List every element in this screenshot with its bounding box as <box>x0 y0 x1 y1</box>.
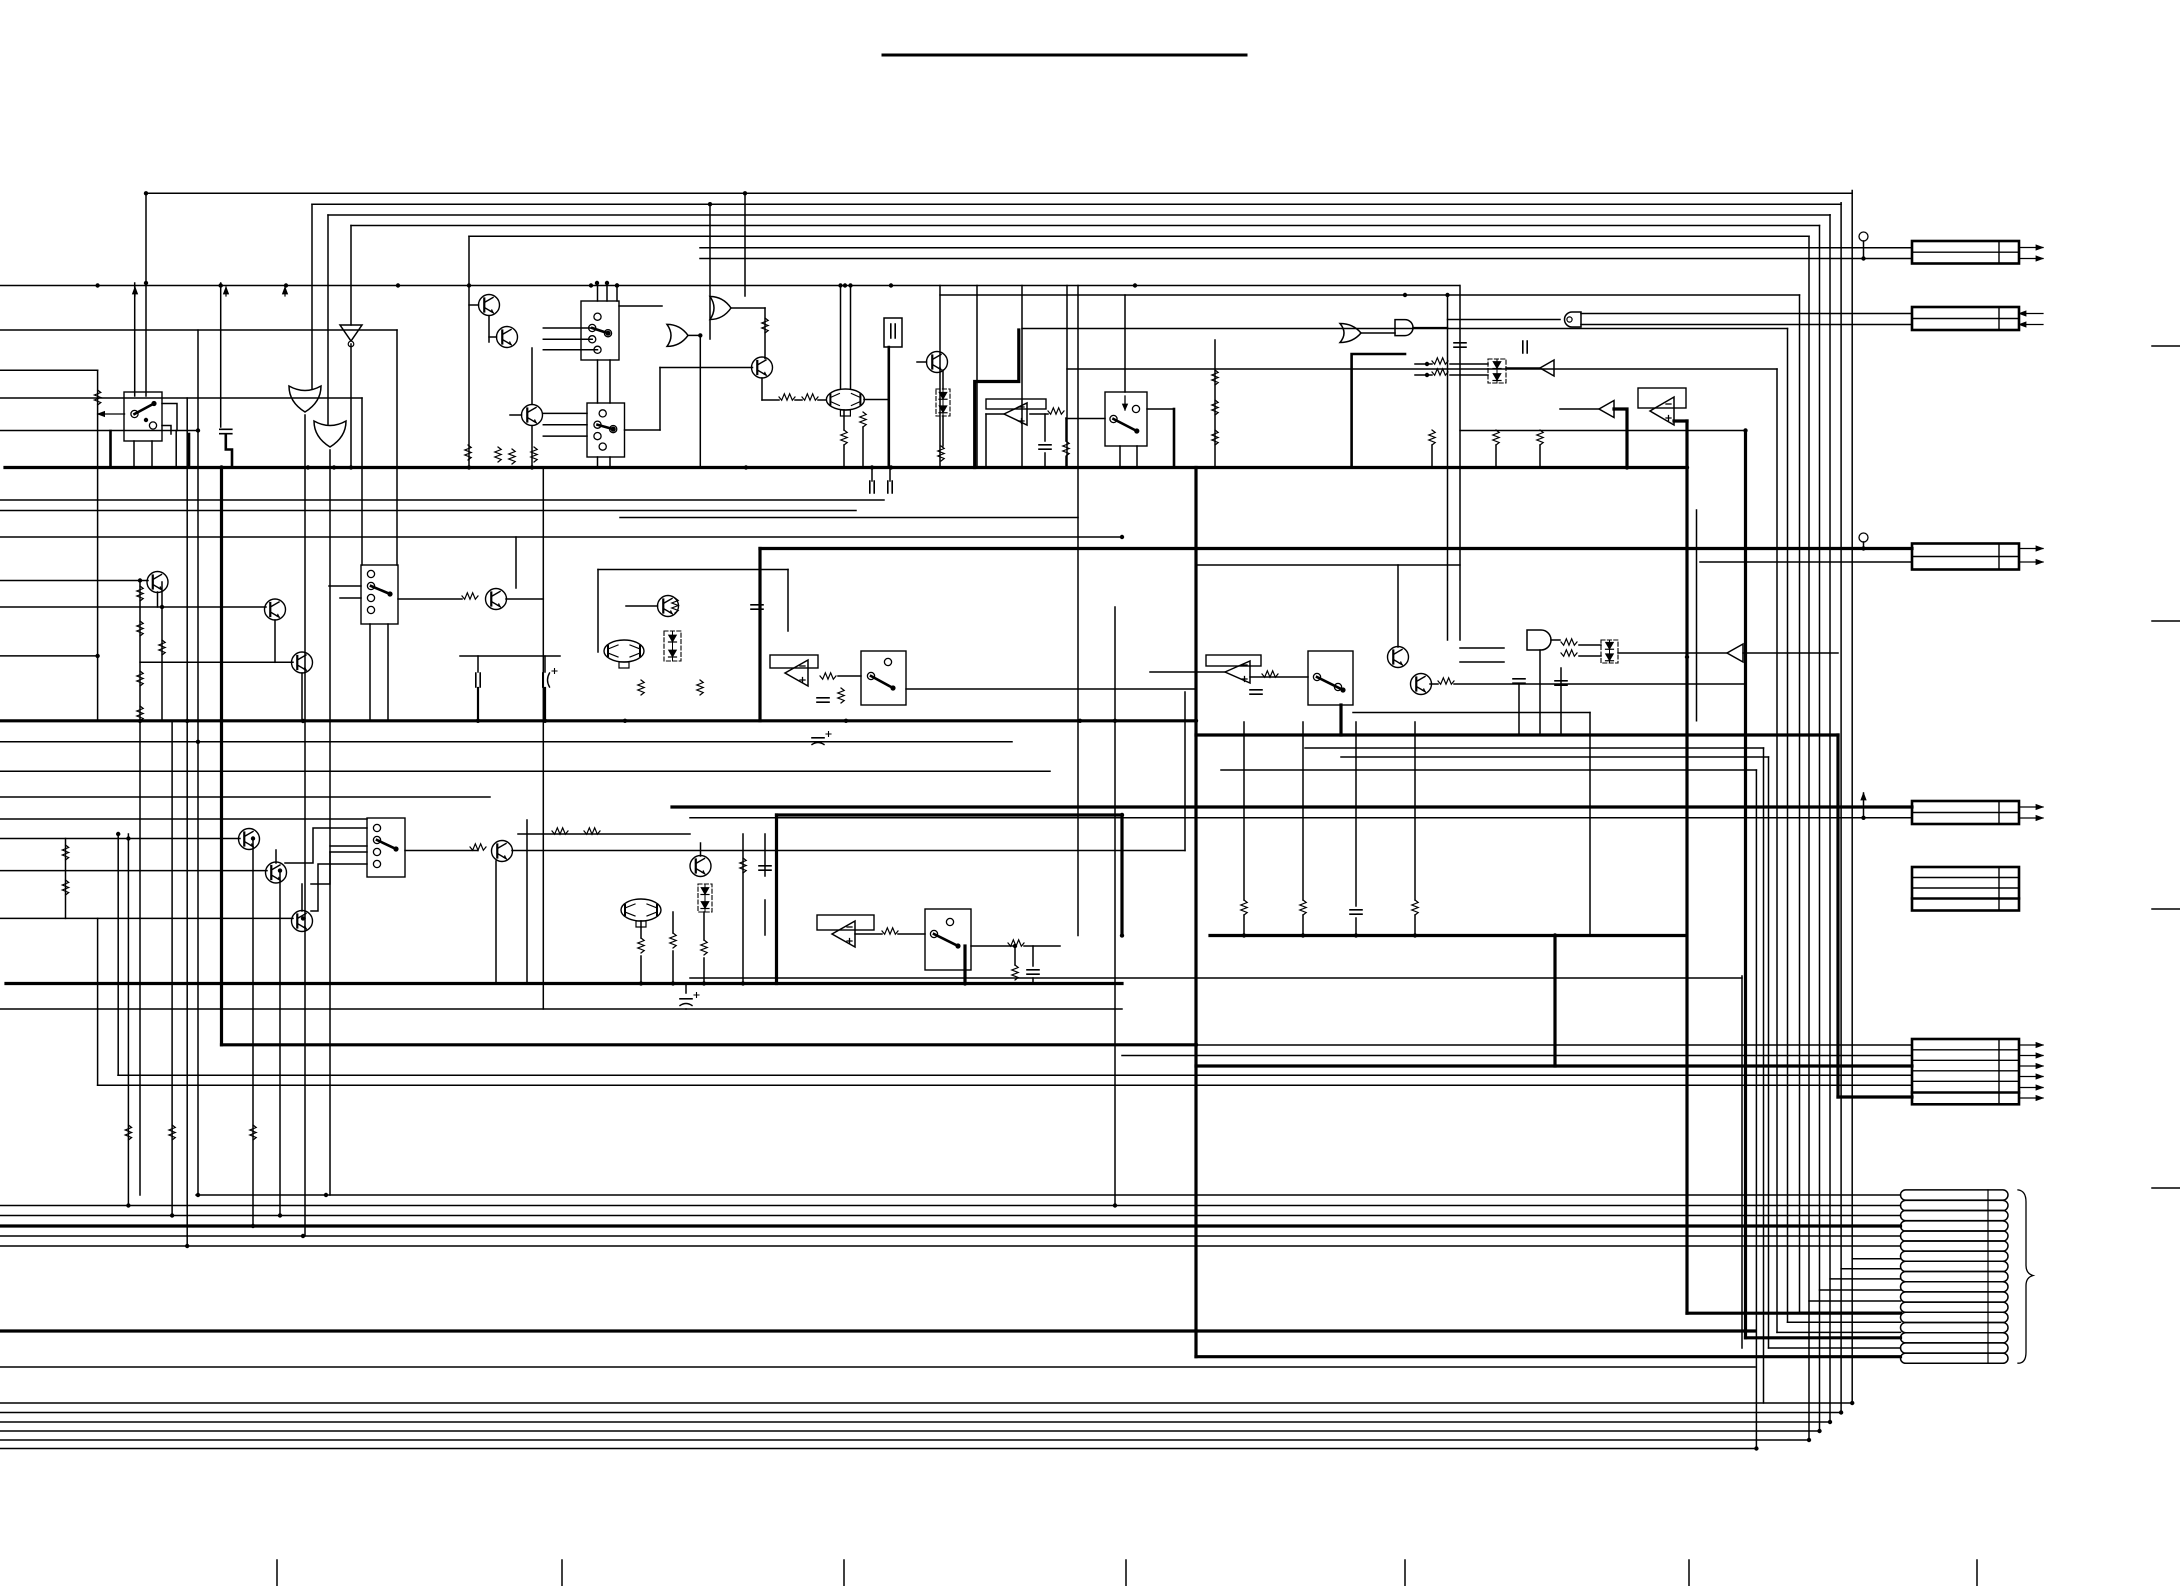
wire net y807 thick to connector CN4 <box>672 805 1912 808</box>
wire dual out right <box>864 399 889 401</box>
wire q chain <box>531 348 533 404</box>
wire thick y548 to connector CN3 <box>760 547 1912 550</box>
wire vertical x96 <box>97 370 99 721</box>
wire u7 out <box>1250 676 1308 678</box>
capacitor C16 <box>1027 970 1039 974</box>
capacitor C19 <box>1555 681 1567 685</box>
wire r43 stub <box>1065 418 1067 441</box>
wire S2 pin up3 <box>616 286 618 302</box>
wire v743 <box>742 834 744 984</box>
wire q13 chain <box>275 850 277 863</box>
junction <box>1403 293 1407 297</box>
wire cn2 arrow2 <box>2019 324 2043 326</box>
wire s2b out <box>625 429 661 431</box>
transistor Q21 <box>486 589 507 610</box>
wire cap stub2 <box>889 468 891 482</box>
wire S1 thick stub <box>188 434 191 468</box>
wire net-A3 <box>328 214 1830 216</box>
wire g3 in <box>744 193 746 296</box>
wire stub <box>350 344 352 468</box>
right margin tick <box>2152 620 2180 622</box>
capacitor C12 <box>476 673 480 687</box>
wire thick y1331 <box>0 1329 1755 1332</box>
wire middle v1078 <box>1077 286 1079 936</box>
wire bottom bus <box>0 1421 1830 1423</box>
wire vertical x155 <box>151 441 153 468</box>
or-gate G1 <box>289 386 321 412</box>
wire g7 out <box>1448 319 1561 321</box>
capacitor C9 <box>817 698 829 702</box>
wire net-A6 to connector CN1 <box>700 247 1912 249</box>
wire net-A1 top <box>146 192 1852 194</box>
bus thick vertical x1838 <box>1836 735 1839 1097</box>
wire s3 thick down <box>1173 409 1176 468</box>
wire v253 <box>252 839 254 1227</box>
wire vertical x532 <box>531 426 533 468</box>
wire y565 mr <box>1196 564 1460 566</box>
wire v118 <box>117 834 119 1075</box>
resistor R20b <box>1561 650 1577 656</box>
wire r21 stub <box>1243 722 1245 900</box>
wire q21 out <box>506 598 543 600</box>
wire u7 in <box>1150 671 1225 673</box>
resistor R40 <box>495 447 501 462</box>
wire elbow to pill <box>1852 1258 1900 1260</box>
wire vertical x977 <box>976 286 978 468</box>
wire vertical x469 <box>468 236 470 467</box>
resistor R14 <box>638 680 644 695</box>
wire pack wires2 <box>1450 374 1488 376</box>
wire pill6 feed <box>0 1245 1901 1247</box>
resistor R5 <box>938 446 944 461</box>
wire cn3 arrow1 <box>2019 548 2043 550</box>
wire vertical x940 <box>939 286 941 468</box>
brace <box>2018 1190 2033 1363</box>
wire vertical x328 <box>327 215 329 424</box>
wire s8 in2 <box>340 597 361 599</box>
wire Q5 base <box>917 361 927 363</box>
capacitor C1 <box>220 429 232 433</box>
wire net-A2 <box>312 203 1841 205</box>
transistor Q15 <box>492 841 513 862</box>
wire vertical x543 <box>542 468 544 1010</box>
wire elbow to pill16 <box>1769 1347 1901 1349</box>
resistor ladder R <box>137 671 143 686</box>
wire long vertical x198 <box>197 330 199 1195</box>
wire r stub <box>1431 445 1433 468</box>
wire v128 <box>127 834 129 1206</box>
wire rs5 <box>703 912 705 940</box>
wire bus vertical <box>1763 748 1765 1403</box>
resistor R45 <box>62 880 68 895</box>
resistor R20a <box>1561 639 1577 645</box>
wire c18 stub <box>1518 684 1520 735</box>
wire cn3 row2 <box>1700 561 1912 563</box>
wire s2a in3 <box>543 349 597 351</box>
switch S6 box <box>367 818 405 877</box>
switch S7 lever <box>934 934 958 946</box>
cable bundle pills <box>1901 1190 2009 1200</box>
resistor R21 <box>1241 900 1247 915</box>
wire rs3 <box>672 912 674 933</box>
switch S8 lever <box>371 586 390 594</box>
wire bottom bus <box>0 1402 1852 1404</box>
resistor R17 <box>838 688 844 703</box>
transistor Q12 <box>239 829 260 850</box>
resistor R34 <box>701 940 707 955</box>
wire CN6 row6 thick <box>1838 1095 1912 1098</box>
terminal circle CN1 <box>1859 232 1868 241</box>
wire net y607 <box>0 606 266 608</box>
wire r22 stub <box>1302 722 1304 900</box>
wire v1447 <box>1447 295 1449 640</box>
dual transistor Q9 <box>604 640 644 662</box>
resistor R38 <box>462 593 478 599</box>
wire s2b stub1 <box>597 457 599 468</box>
wire net y771 <box>0 770 1050 772</box>
wire pack in1 <box>1579 644 1601 646</box>
wire q18 stub <box>157 592 159 607</box>
switch S4 lever <box>871 676 893 688</box>
wire v280 <box>279 871 281 1216</box>
buffer U8 <box>1727 644 1743 662</box>
wire r21 stub2 <box>1243 915 1245 936</box>
wire net-B4 <box>0 397 362 399</box>
connector CN3 <box>1912 544 2019 570</box>
resistor R43 <box>1063 441 1069 456</box>
wire cn3 arrow2 <box>2019 561 2043 563</box>
resistor R13 <box>672 598 678 613</box>
wire net y655 <box>0 655 96 657</box>
wire r stub <box>1495 445 1497 468</box>
switch S8 box <box>361 565 398 624</box>
resistor R33 <box>670 933 676 948</box>
diode pack D5 <box>698 884 712 912</box>
wire net y918 <box>0 917 293 919</box>
junction <box>1425 362 1429 366</box>
wire thick elbow to pill15 <box>1746 1336 1901 1339</box>
ecap C15 <box>680 998 692 1000</box>
wire thick q-feed <box>1352 354 1405 468</box>
wire c13 <box>544 656 546 672</box>
wire cn6 arrow <box>2019 1097 2043 1099</box>
wire s2 mid links <box>597 360 599 403</box>
switch S3 box <box>1105 392 1147 446</box>
wire dual up2 <box>850 286 852 390</box>
wire cn3 stub <box>1863 542 1865 549</box>
wire c19 stub <box>1560 668 1562 735</box>
junction dots <box>219 465 223 469</box>
wire vertical x221 upper <box>220 283 222 427</box>
wire g8 out <box>1551 639 1560 641</box>
wire cn4 arrow1 <box>2019 806 2043 808</box>
bus middle-right thick <box>1210 934 1685 937</box>
transistor Q14 <box>292 911 313 932</box>
wire bottom bus <box>0 1439 1809 1441</box>
wire bus vertical <box>1840 203 1842 1413</box>
or-gate G5 <box>1340 324 1361 343</box>
capacitor C8 <box>751 605 763 609</box>
wire s2b stub2 <box>609 457 611 468</box>
wire net y500 <box>0 499 884 501</box>
bottom margin tick <box>1404 1560 1406 1586</box>
wire bus vertical <box>1851 191 1853 1404</box>
capacitor C18 <box>1513 679 1525 683</box>
resistor R31 <box>740 858 746 873</box>
wire elbow to pill <box>1841 1268 1900 1270</box>
wire s7 out2 <box>1024 945 1060 947</box>
resistor R15 <box>697 680 703 695</box>
switch S3 arrow <box>1124 396 1126 410</box>
right margin tick <box>2152 908 2180 910</box>
wire r7 stub <box>843 410 845 430</box>
wire v162 <box>161 582 163 721</box>
wire r23 stub <box>1414 722 1416 900</box>
and-gate G8 <box>1527 630 1551 650</box>
resistor column R9 <box>1212 400 1218 415</box>
wire c12 <box>477 656 479 672</box>
junction <box>848 283 852 287</box>
switch S5 box <box>1308 651 1353 705</box>
wire v172 <box>171 721 173 1216</box>
wire vertical x139 <box>133 441 135 468</box>
wire cn4 arrow2 <box>2019 817 2043 819</box>
wire q4 collector <box>764 308 766 359</box>
wire s6 out <box>405 850 478 852</box>
wire net-B7 elbow right <box>1022 328 1788 330</box>
inverter U1 <box>340 325 362 341</box>
wire s5 out <box>1353 712 1590 714</box>
resistor R18 <box>1262 671 1278 677</box>
wire s2b in3 <box>543 435 587 437</box>
wire y748 <box>1305 747 1764 749</box>
wire net y834 D-row2 <box>690 817 1912 819</box>
wire dual in3 <box>818 399 826 401</box>
wire bus vertical <box>1787 329 1789 1323</box>
wire v1185 <box>1184 692 1186 851</box>
wire c11 stub2 <box>1355 918 1357 936</box>
wire bus vertical <box>1819 226 1821 1432</box>
junction <box>1861 256 1865 260</box>
wire CN6 row1 <box>1196 1044 1912 1046</box>
wire v1460 <box>1459 286 1461 641</box>
wire c15b <box>685 1008 687 1010</box>
wire cn2 arrow1 <box>2019 313 2043 315</box>
title underline <box>883 54 1246 57</box>
wire net-B0 long bus y285 <box>0 285 1460 287</box>
wire net-B2 <box>0 369 98 371</box>
wire net y1009 <box>0 1008 1122 1010</box>
wire pack in2 <box>1579 655 1601 657</box>
capacitor C7 <box>1454 343 1466 347</box>
wire buf <box>1506 367 1540 369</box>
wire vertical x397 <box>396 330 398 565</box>
resistor R7 <box>841 430 847 445</box>
resistor R2 <box>779 394 795 400</box>
resistor R12 <box>1432 369 1448 375</box>
resistor R22 <box>1300 900 1306 915</box>
resistor R23 <box>1412 900 1418 915</box>
switch S1 lever <box>135 404 155 415</box>
wire bus vertical <box>1799 295 1801 1312</box>
resistor R32 <box>638 938 644 953</box>
capacitor C11 <box>1350 910 1362 914</box>
wire S2 pins up <box>597 283 599 301</box>
capacitor C2 marks <box>891 324 895 338</box>
wire net-B6 elbow right <box>940 294 1800 296</box>
switch S2b box <box>587 403 625 457</box>
transistor Q1 <box>479 295 500 316</box>
wire dual up <box>840 286 842 390</box>
wire net y870 <box>0 870 267 872</box>
wire S2 pin up2 <box>606 283 608 301</box>
wire s2 mid links2 <box>609 360 611 403</box>
switch S6 lever <box>377 840 396 849</box>
wire net-B1 <box>0 329 397 331</box>
wire q16 up <box>700 843 702 856</box>
wire net y742 <box>0 741 1012 743</box>
wire y834b <box>518 833 690 835</box>
wire c12b <box>477 688 479 721</box>
resistor R24 <box>159 640 165 655</box>
wire vertical x312 <box>311 204 313 389</box>
wire s2a in1 <box>543 327 592 329</box>
wire res chain x65 <box>65 839 67 919</box>
wire y770 <box>1221 769 1756 771</box>
wire S1 out1 <box>162 404 177 431</box>
wire u6 sw <box>838 675 861 677</box>
wire r23 stub2 <box>1414 915 1416 936</box>
wire u9 out <box>855 933 882 935</box>
terminal circle CN3 <box>1859 533 1868 542</box>
wire r37 stub <box>1014 946 1016 965</box>
junction <box>743 191 747 195</box>
arrow junction <box>225 287 227 296</box>
wire s6 step3 <box>285 828 367 863</box>
junction <box>698 333 702 337</box>
transistor Q4 <box>752 357 773 378</box>
wire cluster top <box>598 569 788 571</box>
wire rs4 <box>672 951 674 984</box>
wire elbow to pill <box>1820 1289 1901 1291</box>
wire net y510 <box>0 510 856 512</box>
wire cn1 arrow2 <box>2019 258 2043 260</box>
wire s4 out <box>906 688 1196 690</box>
wire G4 out <box>688 334 700 336</box>
wire g4 in <box>709 204 711 339</box>
wire q20 stub <box>301 673 303 721</box>
wire s3 stub2 <box>1136 446 1138 468</box>
transistor Q18 <box>147 572 168 593</box>
wire CN6 row4 <box>118 1074 1912 1076</box>
resistor R3 <box>802 394 818 400</box>
wire q11 right <box>1454 683 1746 685</box>
right margin tick <box>2152 1187 2180 1189</box>
wire r stubs <box>640 921 642 938</box>
wire q4 base <box>660 367 753 369</box>
wire q15 out <box>512 850 1185 852</box>
wire v303 <box>304 918 306 1236</box>
wire pill17 feed thick <box>1196 1355 1901 1358</box>
wire cn6 arrow <box>2019 1055 2043 1057</box>
wire r4 wire <box>1030 413 1048 415</box>
wire vertical x351 <box>350 226 352 326</box>
wire r6 stub <box>862 427 864 468</box>
op-amp U2 <box>1004 403 1027 425</box>
wire v765 <box>764 834 766 876</box>
wire cap stubs <box>871 468 873 482</box>
wire stub thick jog <box>226 435 232 468</box>
wire r col <box>1214 340 1216 468</box>
wire net-A5 <box>469 235 1809 237</box>
wire v788 <box>787 570 789 632</box>
wire bus vertical <box>1808 236 1810 1440</box>
wire vertical x176 <box>175 431 177 468</box>
resistor R44 <box>62 845 68 860</box>
bus thick y735 <box>1196 733 1838 736</box>
buffer U4 <box>1599 401 1614 418</box>
transistor Q10 <box>1388 647 1409 668</box>
wire cap rail <box>460 655 560 657</box>
wire and in2 <box>1460 661 1504 663</box>
capacitor C2 box <box>884 318 902 347</box>
capacitor C17 <box>1250 690 1262 694</box>
wire c15 <box>685 984 687 994</box>
diode pack D3 <box>664 631 681 661</box>
resistor R36 <box>1008 940 1024 946</box>
switch S4 box <box>861 651 906 705</box>
wire vertical x1022 <box>1021 286 1023 468</box>
junction <box>708 202 712 206</box>
wire vertical x489 <box>488 316 490 342</box>
wire u8 right <box>1743 652 1838 654</box>
resistor R4 <box>1048 408 1064 414</box>
wire middle v1115 <box>1114 607 1116 1206</box>
wire u2 tip vertical <box>985 414 987 468</box>
arrow junction <box>284 287 286 296</box>
wire Q3 base <box>510 414 522 416</box>
wire G2 output long <box>329 450 331 852</box>
transistor Q5 <box>927 352 948 373</box>
wire vertical x146 <box>145 193 147 396</box>
resistor column R10 <box>1212 430 1218 445</box>
bottom margin tick <box>1976 1560 1978 1586</box>
bottom margin tick <box>1688 1560 1690 1586</box>
resistor column R8 <box>1212 370 1218 385</box>
bus thick vertical x1122 <box>1120 815 1123 936</box>
wire net y976 <box>690 977 1742 979</box>
wire cn6 arrow <box>2019 1065 2043 1067</box>
wire G3 out <box>731 307 765 309</box>
resistor R6 <box>860 412 866 427</box>
junction <box>219 283 223 287</box>
connector CN4 <box>1912 801 2019 824</box>
wire thick L <box>975 330 1019 468</box>
wire r22 stub2 <box>1302 915 1304 936</box>
wire y757 <box>1341 756 1769 758</box>
transistor Q13 <box>266 862 287 883</box>
wire thick y815 <box>777 813 1123 816</box>
wire thick F3 feeder <box>1553 936 1556 1067</box>
wire CN2 row1 wire <box>1581 313 1912 315</box>
wire q19 stub <box>274 620 276 662</box>
wire vertical x1067 <box>1066 286 1068 468</box>
right margin tick <box>2152 345 2180 347</box>
resistor R29 <box>552 828 568 834</box>
junction <box>144 191 148 195</box>
capacitor C14 <box>759 866 771 870</box>
wire bus vertical <box>1768 757 1770 1348</box>
